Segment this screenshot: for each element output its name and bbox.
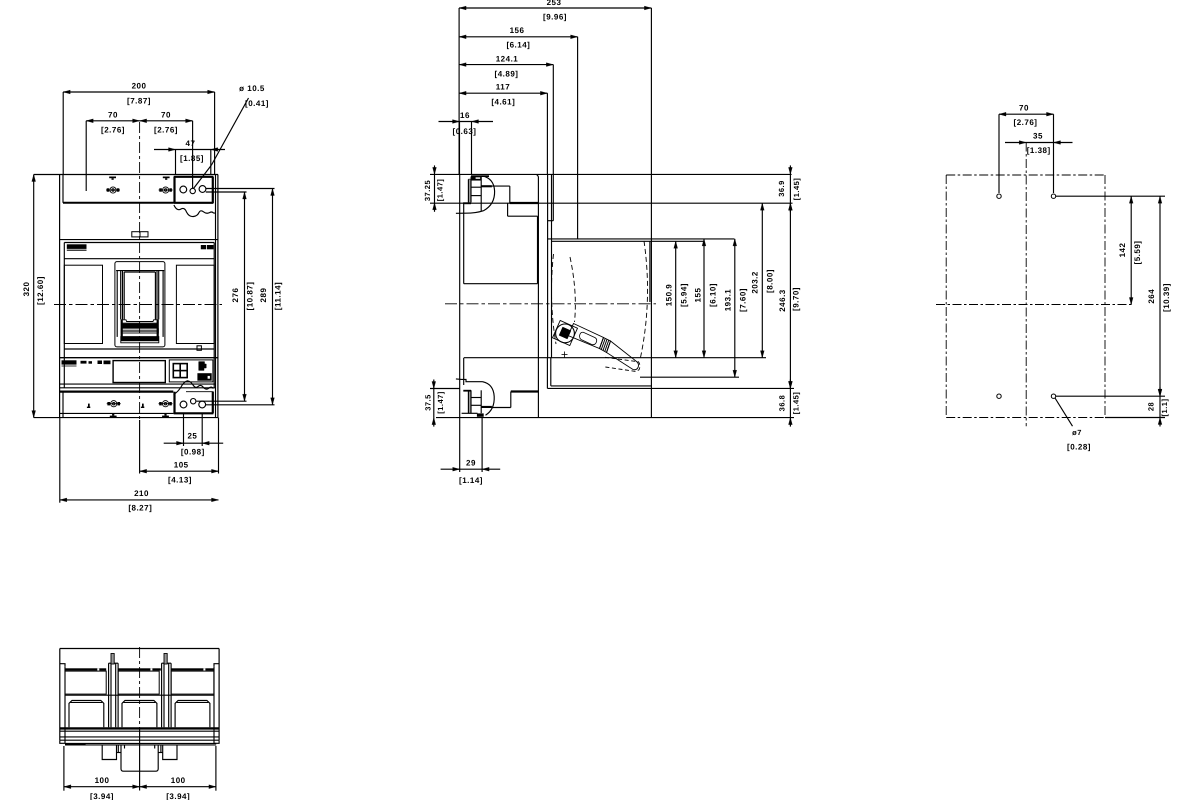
- svg-text:[12.60]: [12.60]: [36, 276, 45, 305]
- svg-text:320: 320: [22, 282, 31, 297]
- svg-text:[6.10]: [6.10]: [708, 283, 717, 307]
- svg-text:156: 156: [510, 26, 525, 35]
- svg-text:[2.76]: [2.76]: [1014, 118, 1038, 127]
- svg-text:100: 100: [95, 776, 110, 785]
- svg-text:25: 25: [187, 432, 197, 441]
- svg-text:200: 200: [132, 82, 147, 91]
- svg-text:70: 70: [161, 111, 171, 120]
- svg-text:28: 28: [1147, 402, 1156, 411]
- svg-text:124.1: 124.1: [496, 55, 519, 64]
- svg-text:142: 142: [1118, 243, 1127, 258]
- svg-text:70: 70: [108, 111, 118, 120]
- svg-text:37.5: 37.5: [423, 394, 432, 411]
- svg-text:210: 210: [134, 489, 149, 498]
- svg-text:[4.89]: [4.89]: [495, 70, 519, 79]
- svg-text:[8.00]: [8.00]: [766, 269, 775, 293]
- svg-text:[1.47]: [1.47]: [435, 179, 444, 202]
- svg-text:[1.45]: [1.45]: [792, 178, 801, 201]
- svg-text:264: 264: [1147, 289, 1156, 304]
- svg-text:16: 16: [460, 111, 470, 120]
- svg-text:ø7: ø7: [1072, 428, 1082, 437]
- svg-text:36.8: 36.8: [778, 395, 787, 412]
- svg-text:289: 289: [259, 288, 268, 303]
- svg-text:246.3: 246.3: [778, 289, 787, 312]
- svg-text:[1.85]: [1.85]: [180, 154, 204, 163]
- svg-text:35: 35: [1033, 132, 1043, 141]
- svg-text:276: 276: [231, 288, 240, 303]
- svg-text:[0.98]: [0.98]: [181, 448, 205, 457]
- svg-text:37.25: 37.25: [423, 180, 432, 201]
- svg-text:253: 253: [547, 0, 562, 7]
- svg-text:29: 29: [466, 459, 476, 468]
- svg-text:[4.61]: [4.61]: [491, 98, 515, 107]
- svg-text:[7.87]: [7.87]: [127, 97, 151, 106]
- svg-text:70: 70: [1019, 104, 1029, 113]
- svg-text:[0.28]: [0.28]: [1067, 443, 1091, 452]
- svg-text:ø 10.5: ø 10.5: [239, 84, 265, 93]
- svg-text:[1.47]: [1.47]: [436, 391, 445, 414]
- svg-text:[10.39]: [10.39]: [1162, 283, 1171, 312]
- svg-text:47: 47: [186, 139, 196, 148]
- svg-text:[3.94]: [3.94]: [166, 792, 190, 800]
- svg-text:[8.27]: [8.27]: [128, 504, 152, 513]
- svg-text:[4.13]: [4.13]: [168, 476, 192, 485]
- svg-text:[1.1]: [1.1]: [1160, 399, 1169, 417]
- svg-text:203.2: 203.2: [751, 271, 760, 294]
- svg-text:[7.60]: [7.60]: [739, 288, 748, 312]
- svg-text:193.1: 193.1: [724, 289, 733, 312]
- svg-text:[9.96]: [9.96]: [543, 13, 567, 22]
- svg-text:[1.38]: [1.38]: [1027, 146, 1051, 155]
- svg-text:[2.76]: [2.76]: [101, 126, 125, 135]
- svg-text:155: 155: [693, 288, 702, 303]
- svg-text:[6.14]: [6.14]: [506, 41, 530, 50]
- svg-text:36.9: 36.9: [777, 180, 786, 197]
- svg-text:105: 105: [174, 461, 189, 470]
- svg-text:[5.59]: [5.59]: [1133, 241, 1142, 265]
- svg-text:[9.70]: [9.70]: [792, 287, 801, 311]
- svg-text:117: 117: [496, 83, 510, 92]
- svg-text:[11.14]: [11.14]: [274, 282, 283, 310]
- svg-text:150.9: 150.9: [664, 284, 673, 307]
- svg-text:[0.63]: [0.63]: [453, 127, 477, 136]
- svg-text:[3.94]: [3.94]: [90, 792, 114, 800]
- svg-text:100: 100: [171, 776, 186, 785]
- svg-text:[0.41]: [0.41]: [245, 99, 269, 108]
- svg-text:[2.76]: [2.76]: [154, 126, 178, 135]
- svg-text:[1.45]: [1.45]: [792, 392, 801, 415]
- svg-text:[5.94]: [5.94]: [679, 283, 688, 307]
- svg-text:[1.14]: [1.14]: [459, 476, 483, 485]
- svg-text:[10.87]: [10.87]: [246, 282, 255, 311]
